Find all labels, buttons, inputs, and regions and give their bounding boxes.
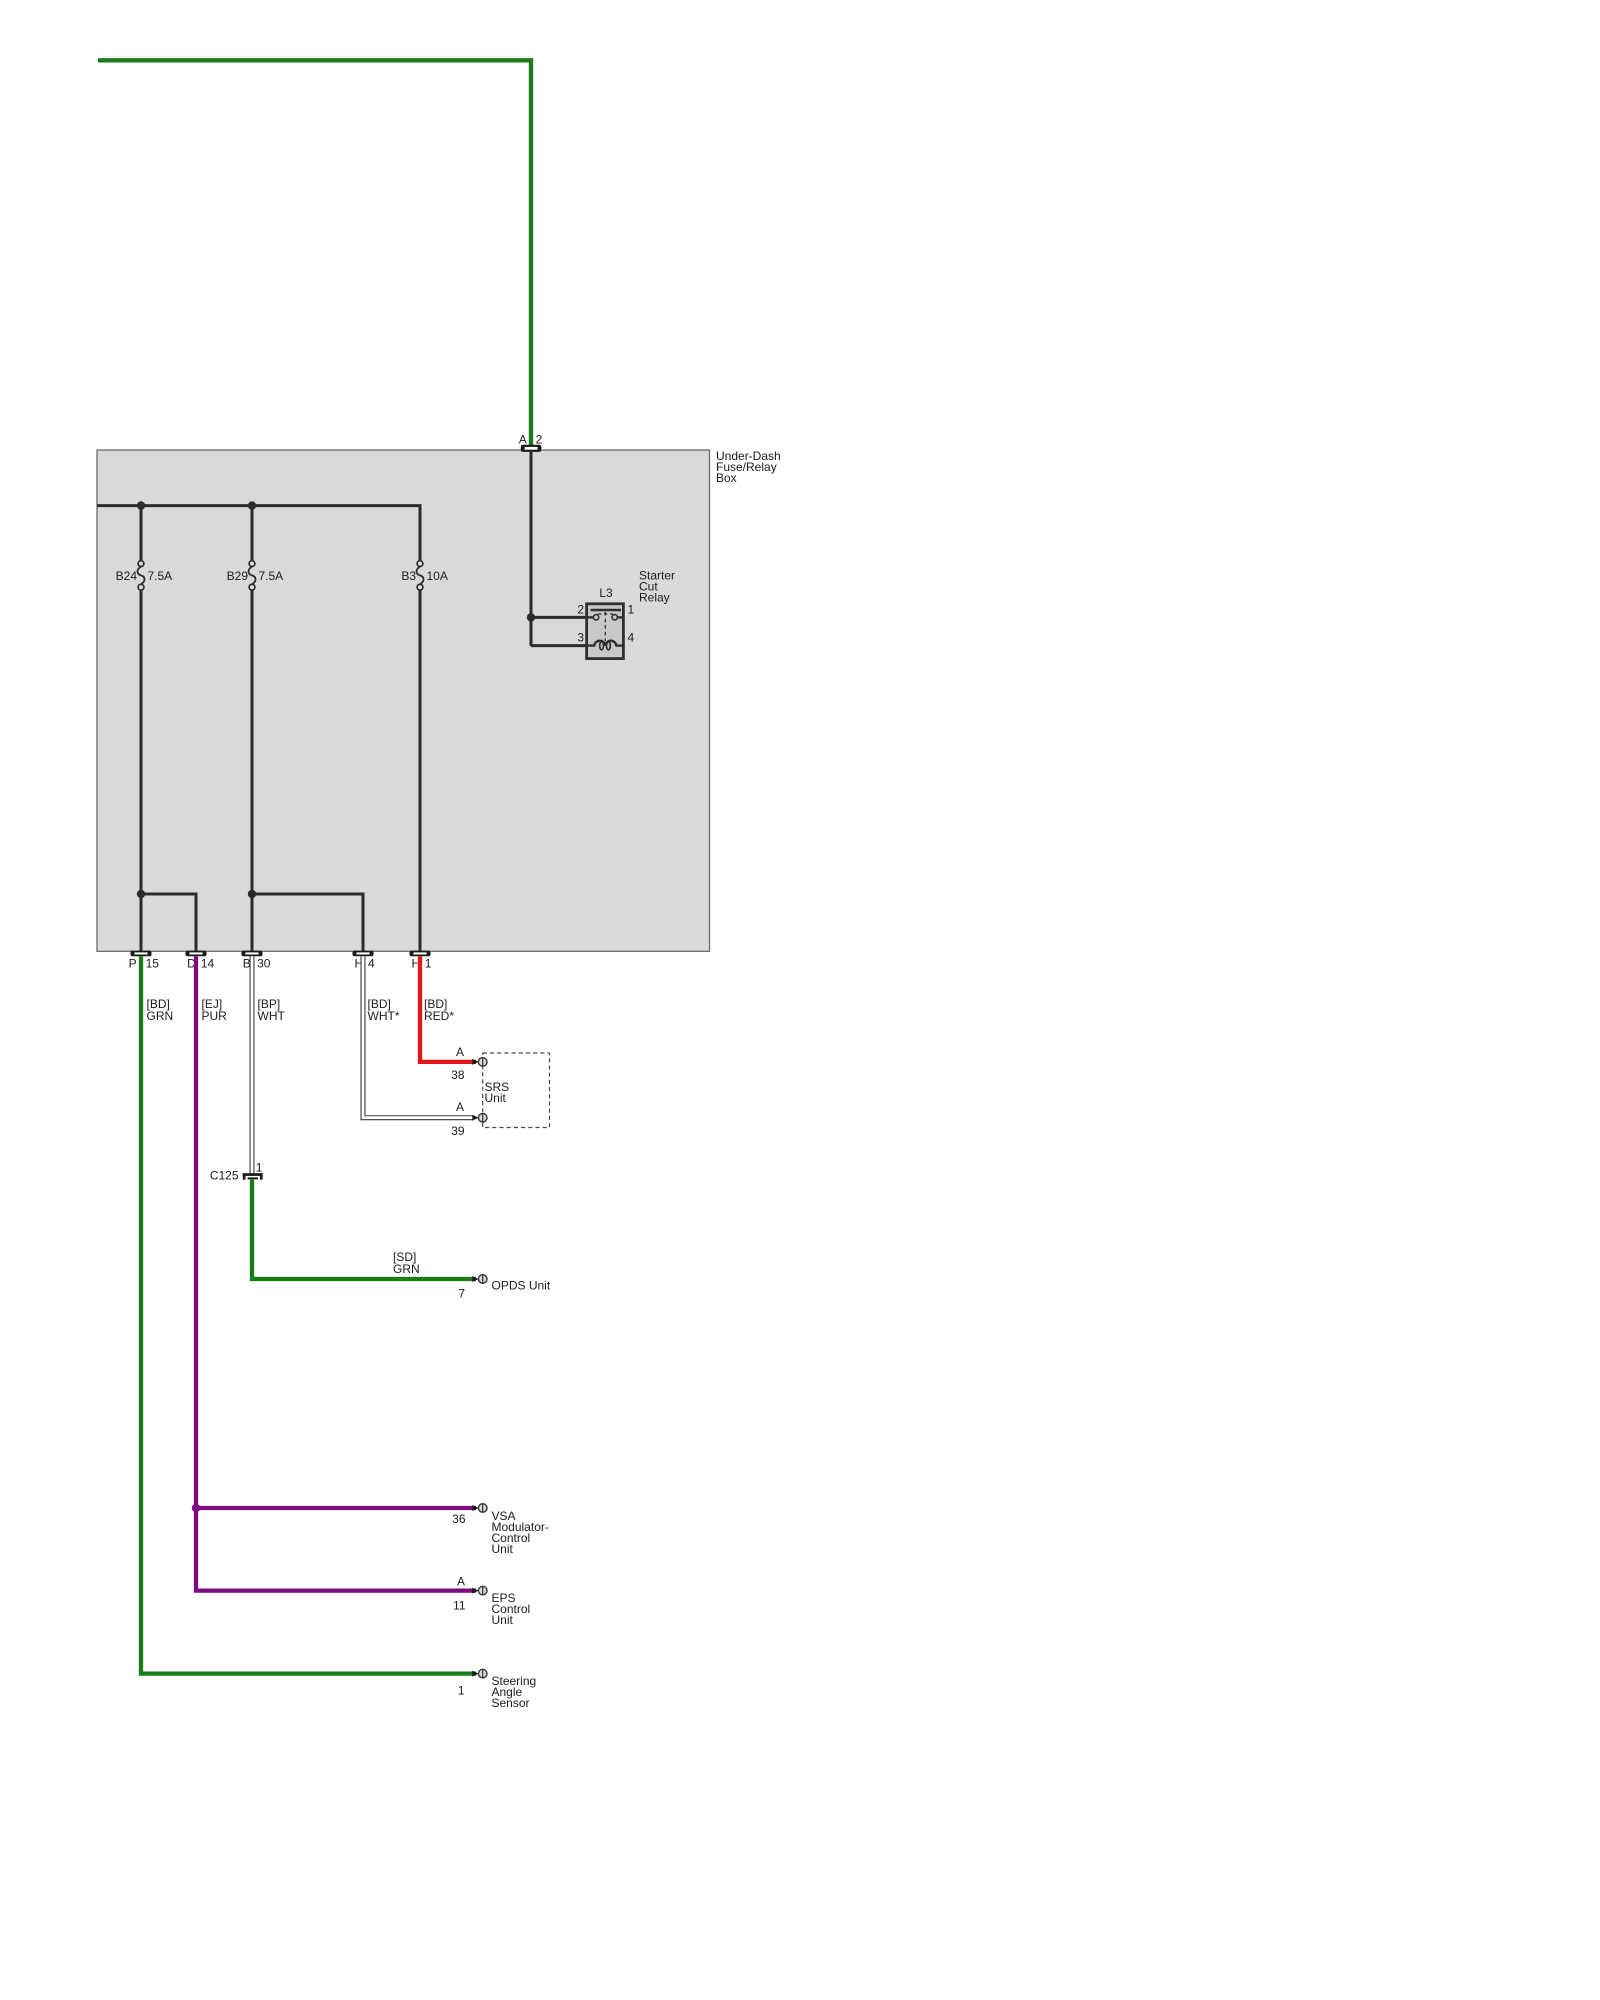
junction B24/D14 xyxy=(137,890,145,898)
fuse B24 7.5A xyxy=(137,561,144,590)
wire [BP] WHT B30 to C125 xyxy=(250,956,255,1173)
svg-text:A: A xyxy=(457,1575,465,1589)
svg-text:A: A xyxy=(456,1100,464,1114)
svg-text:1: 1 xyxy=(256,1161,263,1175)
wire [BD] RED* H1 to SRS A38 xyxy=(420,956,476,1062)
wire branch to connector H4 xyxy=(252,894,363,951)
svg-text:Box: Box xyxy=(716,471,737,485)
svg-text:B3: B3 xyxy=(401,569,416,583)
svg-text:WHT*: WHT* xyxy=(368,1009,400,1023)
wire [BD] WHT* H4 to SRS A39 xyxy=(363,956,474,1117)
wire bus inside box xyxy=(97,506,420,562)
junction bus/B29 xyxy=(248,501,256,509)
connector D14 xyxy=(186,951,207,957)
svg-text:1: 1 xyxy=(628,602,635,616)
pin Steering 1 xyxy=(478,1669,487,1678)
svg-text:Sensor: Sensor xyxy=(492,1696,530,1710)
svg-text:14: 14 xyxy=(201,956,215,970)
svg-text:Unit: Unit xyxy=(492,1613,514,1627)
junction bus/B24 xyxy=(137,501,145,509)
pin VSA 36 xyxy=(478,1504,487,1513)
pin SRS A39 xyxy=(478,1113,487,1122)
fuse B3 10A xyxy=(416,561,423,590)
svg-text:L3: L3 xyxy=(599,586,613,600)
wire B3 fuse to connector H1 xyxy=(419,590,422,951)
svg-text:P: P xyxy=(129,956,137,970)
connector A2 xyxy=(521,445,542,452)
wire [EJ] PUR D14 to EPS xyxy=(196,956,476,1590)
svg-text:10A: 10A xyxy=(427,569,448,583)
wire B24 fuse to lower junction xyxy=(140,590,143,951)
svg-text:4: 4 xyxy=(368,956,375,970)
wire to relay pin 3 xyxy=(531,644,588,647)
wire drop to fuse B29 xyxy=(251,506,254,562)
junction PUR VSA xyxy=(192,1504,200,1512)
connector H1 xyxy=(410,951,431,957)
svg-text:36: 36 xyxy=(452,1512,466,1526)
svg-text:15: 15 xyxy=(146,956,160,970)
svg-text:Unit: Unit xyxy=(485,1091,507,1105)
wire branch to connector D14 xyxy=(141,894,196,951)
arrow SRS A38 xyxy=(472,1059,478,1065)
svg-text:B24: B24 xyxy=(116,569,138,583)
wire B29 fuse to lower junction xyxy=(251,590,254,951)
arrow VSA pin 36 xyxy=(472,1505,478,1511)
connector C125 xyxy=(243,1173,263,1180)
junction B29/H4 xyxy=(248,890,256,898)
svg-text:GRN: GRN xyxy=(147,1009,174,1023)
svg-text:Unit: Unit xyxy=(492,1542,514,1556)
wire green feed from ignition switch xyxy=(98,60,531,445)
arrow OPDS pin 7 xyxy=(472,1276,478,1282)
junction A2/relay xyxy=(527,613,535,621)
svg-text:1: 1 xyxy=(425,956,432,970)
arrow Steering pin 1 xyxy=(472,1671,478,1677)
connector H4 xyxy=(353,951,374,957)
svg-text:11: 11 xyxy=(453,1599,466,1613)
wire drop to fuse B24 xyxy=(140,506,143,562)
wire [BD] GRN P15 to Steering Angle Sensor xyxy=(141,956,476,1673)
svg-text:A: A xyxy=(456,1045,464,1059)
arrow SRS A39 xyxy=(472,1115,478,1121)
pin EPS A11 xyxy=(478,1586,487,1595)
svg-text:38: 38 xyxy=(451,1068,465,1082)
svg-text:7: 7 xyxy=(458,1287,465,1301)
svg-text:A: A xyxy=(519,433,527,447)
svg-text:30: 30 xyxy=(257,956,271,970)
svg-text:39: 39 xyxy=(451,1124,465,1138)
svg-text:GRN: GRN xyxy=(393,1262,420,1276)
svg-text:B29: B29 xyxy=(227,569,249,583)
svg-text:Relay: Relay xyxy=(639,591,670,605)
svg-text:RED*: RED* xyxy=(424,1009,454,1023)
fuse B29 7.5A xyxy=(248,561,255,590)
svg-text:1: 1 xyxy=(458,1683,465,1697)
SRS Unit dashed box xyxy=(483,1053,550,1128)
svg-text:WHT: WHT xyxy=(258,1009,286,1023)
wire [SD] GRN C125 to OPDS Unit xyxy=(252,1180,476,1279)
connector B30 xyxy=(242,951,263,957)
relay L3 Starter Cut Relay xyxy=(587,604,624,659)
wire to relay pin 2 xyxy=(531,616,588,619)
arrow EPS pin A11 xyxy=(472,1588,478,1594)
svg-text:7.5A: 7.5A xyxy=(148,569,173,583)
wire A2 to relay xyxy=(530,452,533,646)
svg-text:7.5A: 7.5A xyxy=(259,569,284,583)
connector P15 xyxy=(131,951,152,957)
pin SRS A38 xyxy=(478,1058,487,1067)
svg-text:2: 2 xyxy=(577,602,584,616)
pin OPDS 7 xyxy=(478,1275,487,1284)
svg-text:4: 4 xyxy=(628,630,635,644)
svg-text:C125: C125 xyxy=(210,1169,239,1183)
wire branch PUR to VSA xyxy=(196,1506,476,1510)
Under-Dash Fuse/Relay Box xyxy=(97,450,710,951)
svg-text:OPDS Unit: OPDS Unit xyxy=(492,1278,551,1292)
svg-text:PUR: PUR xyxy=(202,1009,228,1023)
svg-text:2: 2 xyxy=(536,433,543,447)
svg-text:3: 3 xyxy=(577,630,584,644)
